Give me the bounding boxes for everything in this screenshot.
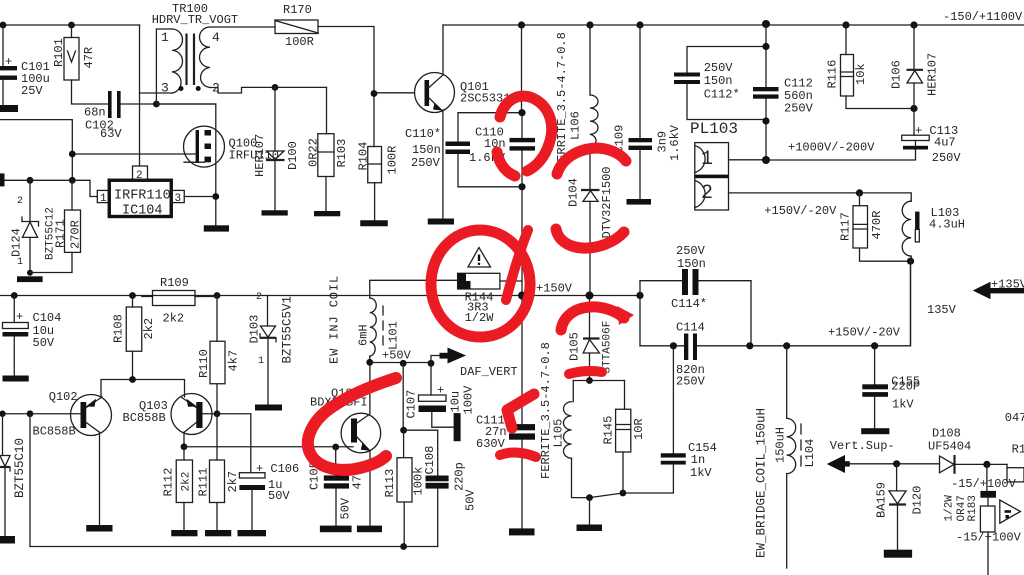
svg-text:R113: R113 (383, 469, 397, 498)
svg-text:D103: D103 (248, 315, 262, 344)
svg-text:2: 2 (136, 170, 143, 182)
svg-text:PL103: PL103 (690, 120, 738, 138)
svg-text:R170: R170 (283, 3, 312, 17)
svg-text:DTV32F1500: DTV32F1500 (600, 166, 614, 238)
svg-text:L101: L101 (387, 321, 401, 350)
svg-text:150n: 150n (412, 143, 441, 157)
svg-text:4k7: 4k7 (227, 350, 241, 372)
svg-text:250V: 250V (676, 244, 706, 258)
svg-text:L106: L106 (569, 111, 583, 140)
svg-text:R101: R101 (52, 38, 66, 67)
svg-text:4: 4 (212, 30, 220, 45)
svg-text:100R: 100R (386, 146, 400, 175)
svg-text:1/2W: 1/2W (944, 495, 956, 522)
svg-text:250V: 250V (676, 375, 706, 389)
svg-text:R103: R103 (335, 139, 349, 168)
svg-text:2: 2 (256, 292, 262, 303)
svg-text:R116: R116 (826, 60, 840, 89)
svg-text:1: 1 (17, 257, 23, 268)
svg-text:50V: 50V (268, 489, 290, 503)
svg-text:C110*: C110* (405, 127, 441, 141)
svg-text:10R: 10R (632, 418, 646, 440)
svg-text:IC104: IC104 (122, 204, 163, 219)
svg-text:250V: 250V (932, 151, 962, 165)
svg-text:HER107: HER107 (253, 134, 267, 177)
svg-text:BA159: BA159 (875, 482, 889, 518)
svg-text:D100: D100 (286, 141, 300, 170)
svg-text:1kV: 1kV (892, 398, 914, 412)
svg-text:1: 1 (258, 356, 264, 367)
svg-text:1.6kV: 1.6kV (668, 124, 682, 161)
svg-text:4u7: 4u7 (934, 136, 956, 150)
svg-text:10u: 10u (449, 391, 463, 413)
svg-text:D120: D120 (911, 486, 925, 515)
svg-text:+135V: +135V (991, 278, 1024, 292)
svg-text:220P: 220P (891, 380, 920, 394)
svg-text:R108: R108 (112, 314, 126, 343)
svg-text:EW_BRIDGE_COIL_150uH: EW_BRIDGE_COIL_150uH (755, 408, 769, 558)
svg-text:HER107: HER107 (926, 53, 940, 96)
svg-text:C104: C104 (33, 311, 62, 325)
svg-text:D124: D124 (10, 228, 24, 257)
svg-text:EW INJ COIL: EW INJ COIL (328, 275, 342, 364)
svg-text:R145: R145 (602, 416, 616, 445)
svg-text:HDRV_TR_VOGT: HDRV_TR_VOGT (152, 13, 238, 27)
svg-text:BC858B: BC858B (33, 425, 76, 439)
svg-text:270R: 270R (69, 220, 83, 249)
svg-text:L104: L104 (803, 439, 817, 468)
svg-text:1: 1 (701, 148, 713, 171)
svg-text:1n: 1n (691, 453, 705, 467)
svg-text:R183: R183 (967, 495, 979, 521)
svg-text:50V: 50V (339, 497, 353, 519)
svg-text:-150/+1100V: -150/+1100V (943, 10, 1023, 24)
svg-text:47R: 47R (82, 47, 96, 69)
svg-text:+ C106: + C106 (256, 462, 299, 476)
svg-text:+: + (5, 55, 12, 69)
svg-text:100V: 100V (462, 385, 476, 415)
svg-text:6mH: 6mH (357, 324, 371, 346)
svg-text:3: 3 (175, 193, 182, 205)
svg-text:+: + (16, 310, 23, 324)
svg-text:+1000V/-200V: +1000V/-200V (788, 141, 875, 155)
svg-text:FERRITE_3.5-4.7-0.8: FERRITE_3.5-4.7-0.8 (555, 32, 569, 169)
svg-text:047: 047 (1005, 411, 1024, 425)
svg-text:0R22: 0R22 (307, 138, 321, 167)
svg-text:C114*: C114* (671, 297, 707, 311)
svg-text:UF5404: UF5404 (928, 440, 971, 454)
svg-text:630V: 630V (476, 437, 506, 451)
svg-text:C108: C108 (423, 446, 437, 475)
svg-text:C107: C107 (405, 390, 419, 419)
svg-text:L105: L105 (552, 419, 566, 448)
svg-text:68n: 68n (84, 106, 106, 120)
svg-text:100R: 100R (285, 35, 314, 49)
svg-text:STTA506F: STTA506F (602, 321, 614, 374)
svg-text:250V: 250V (704, 61, 734, 75)
svg-text:10k: 10k (854, 63, 868, 85)
svg-text:25V: 25V (21, 84, 43, 98)
svg-text:FERRITE_3.5-4.7-0.8: FERRITE_3.5-4.7-0.8 (539, 342, 553, 479)
svg-text:DAF_VERT: DAF_VERT (460, 365, 518, 379)
svg-text:2: 2 (17, 196, 23, 207)
svg-text:D104: D104 (567, 178, 581, 207)
svg-text:250V: 250V (784, 102, 814, 116)
svg-text:BC858B: BC858B (123, 411, 166, 425)
svg-text:R110: R110 (197, 349, 211, 378)
svg-text:135V: 135V (927, 303, 957, 317)
svg-text:2: 2 (701, 182, 713, 205)
svg-text:+50V: +50V (382, 349, 412, 363)
svg-text:50V: 50V (464, 489, 478, 511)
svg-text:250V: 250V (411, 156, 441, 170)
svg-text:C114: C114 (676, 321, 705, 335)
svg-text:150uH: 150uH (774, 427, 788, 463)
svg-text:150n: 150n (704, 74, 733, 88)
svg-text:R117: R117 (839, 212, 853, 241)
svg-text:R1: R1 (1012, 443, 1024, 457)
svg-text:2k2: 2k2 (163, 312, 185, 326)
svg-text:-15/+100V: -15/+100V (951, 477, 1017, 491)
svg-text:D105: D105 (568, 332, 582, 361)
svg-text:IRFR110: IRFR110 (114, 189, 171, 204)
svg-text:+: + (437, 384, 444, 398)
svg-text:1/2W: 1/2W (465, 311, 495, 325)
svg-text:+150V/-20V: +150V/-20V (764, 204, 837, 218)
svg-text:470R: 470R (870, 211, 884, 240)
svg-text:R112: R112 (162, 468, 176, 497)
svg-text:1kV: 1kV (690, 466, 712, 480)
svg-text:-15/+100V: -15/+100V (956, 531, 1022, 545)
svg-text:R171: R171 (54, 219, 68, 248)
svg-text:3: 3 (161, 81, 169, 96)
svg-text:C112*: C112* (704, 88, 740, 102)
svg-text:BZT55C10: BZT55C10 (13, 438, 27, 498)
svg-text:2k2: 2k2 (142, 318, 156, 340)
svg-text:4.3uH: 4.3uH (929, 218, 965, 232)
svg-text:BZT55C5V1: BZT55C5V1 (281, 296, 295, 364)
svg-text:+150V: +150V (536, 282, 573, 296)
svg-text:2k2: 2k2 (181, 472, 193, 492)
svg-text:+150V/-20V: +150V/-20V (828, 326, 901, 340)
svg-text:1: 1 (161, 30, 169, 45)
svg-text:Vert.Sup-: Vert.Sup- (830, 439, 895, 453)
svg-text:R109: R109 (160, 276, 189, 290)
svg-text:150n: 150n (677, 257, 706, 271)
svg-text:63V: 63V (100, 127, 122, 141)
svg-text:R111: R111 (197, 468, 211, 497)
svg-text:2k7: 2k7 (226, 471, 240, 493)
svg-text:50V: 50V (33, 336, 55, 350)
svg-text:R104: R104 (357, 142, 371, 171)
svg-text:1: 1 (100, 193, 107, 205)
svg-text:Q102: Q102 (49, 390, 78, 404)
svg-text:220p: 220p (453, 462, 467, 491)
svg-text:D108: D108 (932, 427, 961, 441)
svg-text:D106: D106 (890, 60, 904, 89)
svg-text:2: 2 (212, 81, 220, 96)
